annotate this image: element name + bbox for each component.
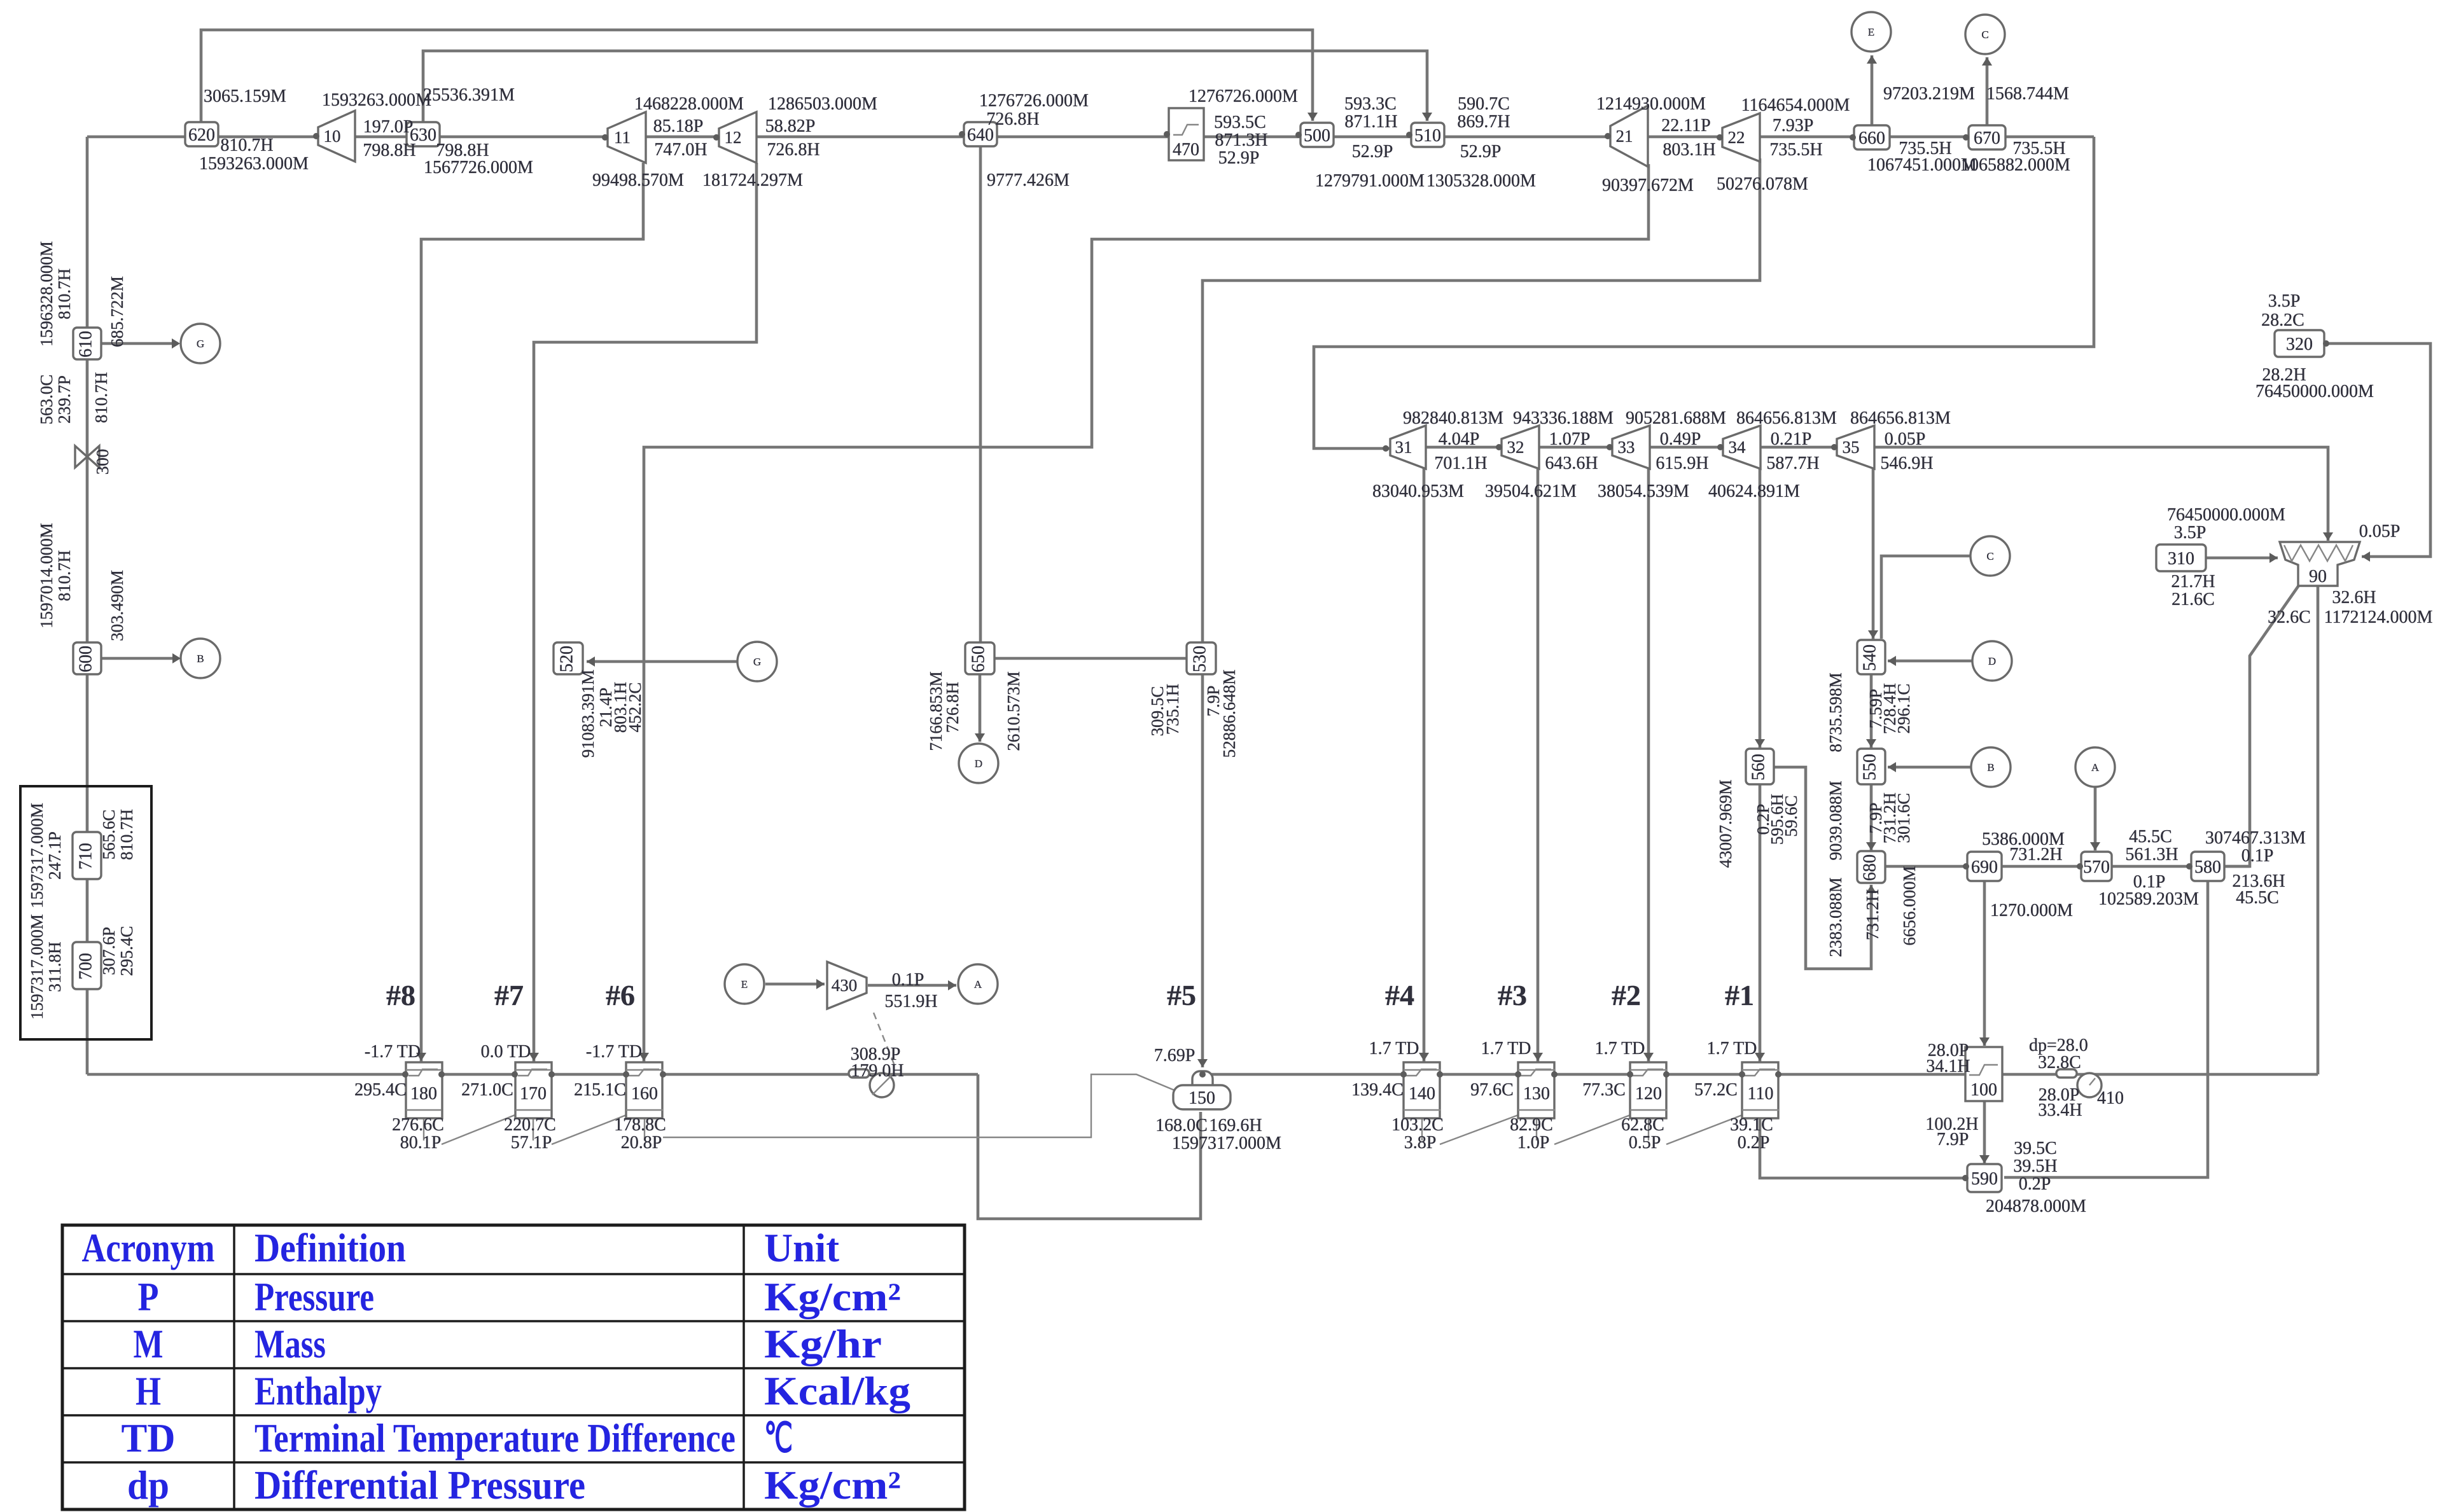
wire: 320 to condenser — [2324, 343, 2430, 557]
wire: turbine21 extraction to heater 160 — [644, 164, 1649, 1062]
svg-text:45.5C: 45.5C — [2129, 827, 2172, 847]
connector circle G — [737, 642, 777, 681]
box 540 — [1857, 640, 1885, 674]
wire: heater110 drain to 590 — [1760, 1118, 1967, 1178]
svg-text:7.93P: 7.93P — [1773, 116, 1814, 135]
svg-text:1270.000M: 1270.000M — [1990, 901, 2073, 920]
svg-text:99498.570M: 99498.570M — [592, 170, 684, 190]
svg-text:Kg/cm²: Kg/cm² — [764, 1462, 901, 1508]
svg-text:33.4H: 33.4H — [2038, 1100, 2082, 1120]
svg-text:12: 12 — [725, 128, 742, 147]
svg-text:410: 410 — [2097, 1088, 2124, 1108]
wire: 670 to circle C — [1986, 57, 1989, 127]
svg-text:Differential Pressure: Differential Pressure — [254, 1462, 585, 1508]
svg-text:452.2C: 452.2C — [625, 683, 645, 733]
connector circle E — [1851, 12, 1891, 52]
svg-text:215.1C: 215.1C — [574, 1080, 626, 1100]
svg-text:D: D — [975, 758, 982, 770]
box 570 — [2081, 852, 2112, 881]
svg-text:#6: #6 — [606, 979, 635, 1011]
svg-text:247.1P: 247.1P — [45, 831, 64, 880]
svg-text:1596328.000M: 1596328.000M — [37, 241, 56, 347]
svg-text:8735.598M: 8735.598M — [1826, 672, 1845, 752]
svg-text:220.7C: 220.7C — [504, 1115, 556, 1135]
svg-text:570: 570 — [2083, 857, 2110, 877]
svg-text:40624.891M: 40624.891M — [1708, 482, 1800, 501]
svg-text:83040.953M: 83040.953M — [1372, 482, 1464, 501]
svg-text:310: 310 — [2168, 549, 2194, 569]
turbine 22 — [1722, 113, 1760, 162]
svg-text:77.3C: 77.3C — [1582, 1080, 1626, 1100]
connector circle E — [725, 964, 764, 1004]
svg-text:Mass: Mass — [254, 1321, 326, 1366]
svg-text:1597317.000M: 1597317.000M — [27, 803, 46, 908]
svg-text:150: 150 — [1189, 1088, 1215, 1108]
svg-text:0.05P: 0.05P — [2359, 522, 2401, 541]
turbine 31 — [1390, 426, 1426, 469]
svg-text:551.9H: 551.9H — [884, 992, 937, 1011]
svg-text:747.0H: 747.0H — [654, 140, 707, 160]
box 670 — [1969, 125, 2005, 149]
svg-text:307.6P: 307.6P — [99, 927, 118, 975]
wire: turbine34 extraction to 560 and heater 110 — [1759, 468, 1762, 1062]
svg-text:1.0P: 1.0P — [1517, 1133, 1550, 1153]
svg-text:1597317.000M: 1597317.000M — [1172, 1134, 1281, 1153]
wire: circle E to turbine 430 — [765, 983, 825, 986]
svg-text:52886.648M: 52886.648M — [1220, 670, 1239, 758]
svg-text:864656.813M: 864656.813M — [1850, 408, 1951, 428]
svg-text:735.5H: 735.5H — [1769, 140, 1822, 160]
svg-text:82.9C: 82.9C — [1510, 1115, 1553, 1135]
feedwater heater 160 — [626, 1062, 662, 1118]
svg-text:#8: #8 — [386, 979, 415, 1011]
svg-text:181724.297M: 181724.297M — [702, 170, 803, 190]
svg-text:#3: #3 — [1498, 979, 1527, 1011]
svg-text:982840.813M: 982840.813M — [1403, 408, 1503, 428]
svg-text:590: 590 — [1971, 1169, 1998, 1189]
svg-text:271.0C: 271.0C — [461, 1080, 513, 1100]
svg-text:1593263.000M: 1593263.000M — [199, 154, 309, 174]
svg-text:276.6C: 276.6C — [392, 1115, 444, 1135]
svg-text:28.2C: 28.2C — [2261, 310, 2304, 330]
wire: circle D to 540 — [1888, 660, 1972, 663]
wire: heater160 drain up into 150 — [663, 1074, 1175, 1137]
svg-text:103.2C: 103.2C — [1391, 1115, 1444, 1135]
svg-text:62.8C: 62.8C — [1621, 1115, 1664, 1135]
svg-text:546.9H: 546.9H — [1880, 454, 1933, 473]
svg-text:560: 560 — [1748, 754, 1768, 780]
svg-text:52.9P: 52.9P — [1460, 142, 1502, 162]
control valve with gauge near 150 — [849, 1069, 869, 1078]
svg-text:0.49P: 0.49P — [1660, 429, 1701, 449]
svg-text:140: 140 — [1409, 1084, 1435, 1104]
svg-text:35: 35 — [1843, 438, 1860, 457]
feedwater heater 140 — [1404, 1062, 1440, 1118]
svg-text:Pressure: Pressure — [254, 1274, 374, 1319]
svg-text:864656.813M: 864656.813M — [1736, 408, 1837, 428]
svg-text:℃: ℃ — [764, 1415, 793, 1460]
svg-text:39504.621M: 39504.621M — [1485, 482, 1577, 501]
svg-text:178.8C: 178.8C — [614, 1115, 666, 1135]
svg-text:810.7H: 810.7H — [92, 372, 111, 423]
svg-text:701.1H: 701.1H — [1434, 454, 1487, 473]
svg-text:M: M — [134, 1321, 164, 1366]
svg-text:31: 31 — [1395, 438, 1412, 457]
svg-text:735.1H: 735.1H — [1163, 684, 1182, 735]
deaerator 150 — [1192, 1071, 1213, 1093]
wire: turbine35 extraction to 540 — [1872, 468, 1875, 640]
turbine 34 — [1723, 426, 1760, 469]
svg-text:G: G — [197, 338, 204, 350]
connector circle C — [1965, 15, 2005, 54]
svg-text:A: A — [974, 978, 982, 990]
svg-text:Definition: Definition — [254, 1225, 406, 1270]
svg-text:50276.078M: 50276.078M — [1717, 174, 1808, 194]
svg-text:180: 180 — [410, 1084, 437, 1104]
svg-text:Enthalpy: Enthalpy — [254, 1368, 382, 1413]
wire: 650 to 530 — [994, 657, 1187, 660]
svg-text:295.4C: 295.4C — [354, 1080, 407, 1100]
wire: 310 to condenser — [2205, 557, 2278, 560]
turbine 33 — [1612, 426, 1650, 469]
svg-text:731.2H: 731.2H — [1863, 889, 1882, 940]
wire: loop 630 to box 510 — [423, 51, 1427, 123]
svg-text:593.5C: 593.5C — [1214, 113, 1266, 132]
svg-text:90: 90 — [2309, 567, 2327, 586]
svg-text:726.8H: 726.8H — [986, 109, 1039, 129]
svg-text:1.7 TD: 1.7 TD — [1481, 1039, 1531, 1058]
svg-text:P: P — [138, 1274, 159, 1319]
svg-text:21.7H: 21.7H — [2171, 572, 2215, 592]
wire: 600 to circle B — [102, 657, 179, 660]
svg-text:120: 120 — [1635, 1084, 1662, 1104]
svg-text:660: 660 — [1858, 128, 1885, 148]
wire: dashed control line 430 to valve — [874, 1013, 896, 1069]
svg-text:97203.219M: 97203.219M — [1883, 84, 1975, 104]
connector circle B — [181, 639, 220, 678]
box 690 — [1967, 852, 2002, 881]
wire: 580 down to 590 — [2004, 881, 2208, 1177]
svg-text:Terminal Temperature Differenc: Terminal Temperature Difference — [254, 1415, 735, 1460]
turbine 35 — [1837, 426, 1874, 469]
svg-text:810.7H: 810.7H — [55, 268, 74, 319]
svg-text:H: H — [136, 1368, 161, 1413]
feedwater heater 170 — [515, 1062, 552, 1118]
svg-text:22.11P: 22.11P — [1661, 116, 1711, 135]
svg-text:C: C — [1981, 29, 1988, 41]
svg-text:303.490M: 303.490M — [108, 570, 127, 641]
svg-text:45.5C: 45.5C — [2236, 888, 2279, 908]
wire: circle B to 550 — [1888, 766, 1971, 769]
svg-text:#1: #1 — [1725, 979, 1754, 1011]
svg-text:B: B — [1987, 761, 1994, 773]
connector circle G — [181, 324, 220, 363]
wire: 680-690-570-580 row — [1885, 865, 2250, 868]
box 530 — [1187, 642, 1216, 674]
svg-text:D: D — [1988, 655, 1996, 667]
wire: turbine11 extraction to heater 180 — [421, 163, 643, 1062]
svg-text:1597317.000M: 1597317.000M — [27, 914, 46, 1020]
svg-text:10: 10 — [324, 127, 341, 146]
valve 300 — [75, 446, 87, 468]
svg-text:1.7 TD: 1.7 TD — [1707, 1039, 1757, 1058]
svg-text:C: C — [1986, 550, 1993, 562]
wire: condenser hotwell to 580 — [2224, 585, 2299, 866]
svg-text:670: 670 — [1974, 128, 2000, 148]
turbine 32 — [1502, 426, 1539, 469]
turbine 10 — [318, 111, 355, 162]
feedwater heater 180 — [406, 1062, 442, 1118]
svg-text:0.1P: 0.1P — [892, 970, 924, 990]
svg-text:B: B — [197, 653, 204, 665]
wire: circle C to 540 top — [1881, 556, 1970, 639]
svg-text:726.8H: 726.8H — [943, 682, 962, 733]
svg-text:59.6C: 59.6C — [1781, 795, 1801, 836]
svg-text:1593263.000M: 1593263.000M — [322, 90, 431, 110]
svg-text:239.7P: 239.7P — [55, 375, 74, 424]
svg-text:610: 610 — [76, 331, 95, 357]
svg-text:1172124.000M: 1172124.000M — [2324, 607, 2433, 627]
wire: 690 down to 100 — [1983, 881, 1986, 1046]
box 520 — [554, 642, 583, 674]
connector circle B — [1971, 747, 2011, 787]
wire: circle G to 520 — [587, 660, 737, 663]
svg-text:0.2P: 0.2P — [2019, 1174, 2051, 1194]
svg-text:1065882.000M: 1065882.000M — [1961, 155, 2070, 175]
svg-text:690: 690 — [1971, 857, 1998, 877]
box 660 — [1854, 125, 1890, 149]
svg-text:39.1C: 39.1C — [1730, 1115, 1773, 1135]
svg-text:4.04P: 4.04P — [1439, 429, 1480, 449]
svg-text:110: 110 — [1748, 1084, 1774, 1104]
wire: crossover loop 670 to LP turbine 31 — [1314, 137, 2094, 448]
svg-text:320: 320 — [2286, 335, 2313, 354]
svg-text:160: 160 — [631, 1084, 658, 1104]
svg-text:1164654.000M: 1164654.000M — [1741, 95, 1850, 115]
svg-text:650: 650 — [968, 646, 988, 672]
svg-text:731.2H: 731.2H — [2009, 845, 2062, 864]
svg-text:130: 130 — [1523, 1084, 1550, 1104]
connector circle D — [959, 744, 998, 783]
svg-text:563.0C: 563.0C — [37, 375, 56, 425]
svg-text:90397.672M: 90397.672M — [1602, 176, 1694, 195]
wire: heater drain stubs — [423, 1118, 424, 1141]
svg-text:869.7H: 869.7H — [1457, 112, 1510, 132]
svg-text:97.6C: 97.6C — [1470, 1080, 1514, 1100]
svg-text:39.5C: 39.5C — [2014, 1139, 2057, 1158]
svg-text:32: 32 — [1507, 438, 1524, 457]
svg-text:169.6H: 169.6H — [1209, 1116, 1262, 1135]
turbine 11 — [608, 112, 646, 163]
svg-text:7.69P: 7.69P — [1154, 1046, 1196, 1065]
svg-text:296.1C: 296.1C — [1894, 684, 1913, 734]
box 590 — [1967, 1164, 2002, 1192]
box 600 — [73, 642, 101, 674]
svg-text:550: 550 — [1860, 754, 1879, 780]
svg-text:3.5P: 3.5P — [2174, 523, 2206, 543]
svg-text:685.722M: 685.722M — [108, 276, 127, 347]
svg-text:9777.426M: 9777.426M — [987, 170, 1070, 190]
svg-text:943336.188M: 943336.188M — [1513, 408, 1614, 428]
svg-text:580: 580 — [2194, 857, 2221, 877]
wire: turbine 430 to circle A — [868, 984, 956, 987]
svg-text:179.0H: 179.0H — [851, 1061, 903, 1081]
svg-text:643.6H: 643.6H — [1545, 454, 1598, 473]
svg-text:11: 11 — [614, 128, 631, 147]
box 650 — [965, 642, 994, 674]
svg-text:7.9P: 7.9P — [1937, 1130, 1969, 1149]
svg-text:1.07P: 1.07P — [1549, 429, 1591, 449]
svg-text:1305328.000M: 1305328.000M — [1426, 171, 1536, 191]
svg-text:43007.969M: 43007.969M — [1716, 780, 1735, 868]
svg-text:170: 170 — [520, 1084, 547, 1104]
svg-text:22: 22 — [1728, 128, 1745, 147]
svg-text:905281.688M: 905281.688M — [1626, 408, 1726, 428]
svg-text:21: 21 — [1616, 127, 1633, 146]
svg-text:34.1H: 34.1H — [1926, 1057, 1970, 1076]
svg-text:620: 620 — [188, 125, 215, 145]
wire: LP line to condenser — [1426, 447, 2328, 541]
wire: drain cascade diagonals — [442, 1115, 515, 1144]
box 610 — [73, 328, 101, 359]
svg-text:430: 430 — [832, 976, 858, 995]
wire: turbine12 extraction to heater 170 — [534, 163, 756, 1062]
svg-text:565.6C: 565.6C — [99, 810, 118, 860]
box 560 — [1746, 749, 1774, 784]
svg-text:197.0P: 197.0P — [363, 117, 414, 137]
svg-text:G: G — [753, 656, 761, 668]
svg-text:1276726.000M: 1276726.000M — [1189, 87, 1298, 106]
svg-text:33: 33 — [1618, 438, 1635, 457]
svg-text:470: 470 — [1173, 140, 1199, 160]
box 500 — [1300, 123, 1334, 147]
svg-text:76450000.000M: 76450000.000M — [2167, 505, 2285, 525]
svg-text:530: 530 — [1190, 646, 1210, 672]
feedwater heater 120 — [1630, 1062, 1666, 1118]
svg-text:139.4C: 139.4C — [1351, 1080, 1404, 1100]
box 710 — [73, 832, 101, 879]
svg-text:615.9H: 615.9H — [1656, 454, 1708, 473]
turbine 430 — [827, 962, 867, 1009]
svg-text:0.5P: 0.5P — [1629, 1133, 1661, 1153]
svg-text:1468228.000M: 1468228.000M — [634, 94, 744, 114]
svg-text:9039.088M: 9039.088M — [1826, 780, 1845, 860]
wire: left column down — [86, 137, 89, 1074]
box 550 — [1857, 749, 1885, 784]
svg-text:0.05P: 0.05P — [1885, 429, 1926, 449]
svg-text:600: 600 — [76, 646, 95, 672]
svg-text:593.3C: 593.3C — [1344, 94, 1397, 114]
svg-text:500: 500 — [1304, 126, 1330, 146]
wire: condenser drain vertical — [2317, 584, 2320, 1074]
svg-text:871.3H: 871.3H — [1215, 130, 1267, 150]
svg-text:20.8P: 20.8P — [621, 1133, 662, 1153]
svg-text:dp: dp — [127, 1462, 169, 1508]
svg-text:540: 540 — [1860, 644, 1879, 671]
svg-text:E: E — [1868, 26, 1874, 38]
svg-text:TD: TD — [122, 1415, 176, 1460]
wire: feedwater to heater 180 — [87, 1073, 978, 1076]
wire: feedwater 150 to heaters to 100 — [1203, 1073, 1965, 1076]
svg-text:587.7H: 587.7H — [1766, 454, 1819, 473]
svg-text:168.0C: 168.0C — [1155, 1116, 1208, 1135]
feedwater heater 110 — [1742, 1062, 1778, 1118]
svg-text:710: 710 — [76, 843, 95, 870]
svg-text:38054.539M: 38054.539M — [1598, 482, 1689, 501]
svg-text:-1.7 TD: -1.7 TD — [365, 1042, 421, 1062]
svg-text:0.21P: 0.21P — [1771, 429, 1812, 449]
svg-text:0.0 TD: 0.0 TD — [481, 1042, 531, 1062]
feedwater heater 130 — [1518, 1062, 1554, 1118]
svg-text:76450000.000M: 76450000.000M — [2255, 382, 2374, 401]
svg-text:1279791.000M: 1279791.000M — [1315, 171, 1425, 191]
svg-text:307467.313M: 307467.313M — [2205, 828, 2306, 848]
wire: 660 to circle E — [1871, 55, 1874, 127]
wire: 100 to gauge to condenser drop — [2002, 1073, 2318, 1076]
turbine 12 — [719, 112, 756, 163]
svg-text:57.2C: 57.2C — [1694, 1080, 1738, 1100]
wire: 540-550-680 chain — [1870, 674, 1873, 852]
svg-text:34: 34 — [1729, 438, 1746, 457]
svg-text:510: 510 — [1414, 126, 1441, 146]
svg-text:520: 520 — [557, 646, 576, 672]
wire: turbine31 extraction to heater 140 — [1423, 468, 1426, 1062]
svg-text:810.7H: 810.7H — [55, 550, 74, 601]
svg-text:32.8C: 32.8C — [2038, 1053, 2081, 1072]
wire: main steam line — [87, 135, 2094, 139]
wire: turbine32 extraction to heater 130 — [1537, 468, 1540, 1062]
svg-text:100: 100 — [1970, 1080, 1997, 1100]
box 680 — [1857, 851, 1885, 883]
svg-text:#7: #7 — [494, 979, 524, 1011]
svg-text:300: 300 — [93, 449, 112, 475]
svg-text:0.1P: 0.1P — [2241, 846, 2274, 866]
wire: turbine22 extraction to 530 and 150 — [1203, 158, 1760, 1067]
svg-text:57.1P: 57.1P — [511, 1133, 552, 1153]
svg-text:#5: #5 — [1167, 979, 1196, 1011]
connector circle D — [1972, 641, 2012, 681]
box 620 — [185, 122, 218, 146]
wire: top loop to box 500 — [201, 30, 1313, 123]
svg-text:91083.391M: 91083.391M — [578, 670, 597, 758]
svg-text:E: E — [741, 978, 748, 990]
svg-text:810.7H: 810.7H — [220, 135, 273, 155]
condenser 90 — [2280, 542, 2360, 586]
svg-text:58.82P: 58.82P — [765, 116, 816, 136]
svg-text:Kg/hr: Kg/hr — [764, 1321, 882, 1366]
connector circle C — [1970, 536, 2010, 576]
svg-text:803.1H: 803.1H — [1663, 140, 1715, 160]
svg-text:80.1P: 80.1P — [400, 1133, 442, 1153]
svg-text:32.6C: 32.6C — [2268, 607, 2311, 627]
svg-text:2383.088M: 2383.088M — [1826, 877, 1845, 957]
svg-text:700: 700 — [76, 953, 95, 980]
box 580 — [2191, 852, 2224, 881]
svg-text:810.7H: 810.7H — [117, 809, 136, 860]
svg-text:3.8P: 3.8P — [1404, 1133, 1437, 1153]
wire: 640 drop to 650 — [979, 146, 982, 643]
svg-text:102589.203M: 102589.203M — [2098, 889, 2199, 909]
svg-text:2610.573M: 2610.573M — [1004, 671, 1023, 751]
svg-text:680: 680 — [1860, 854, 1879, 881]
wire: 610 to circle G — [102, 342, 178, 345]
svg-text:21.6C: 21.6C — [2172, 590, 2215, 609]
svg-text:726.8H: 726.8H — [767, 140, 819, 160]
svg-text:#2: #2 — [1612, 979, 1641, 1011]
svg-text:871.1H: 871.1H — [1344, 112, 1397, 132]
svg-text:52.9P: 52.9P — [1352, 142, 1393, 162]
svg-text:Kg/cm²: Kg/cm² — [764, 1274, 901, 1319]
